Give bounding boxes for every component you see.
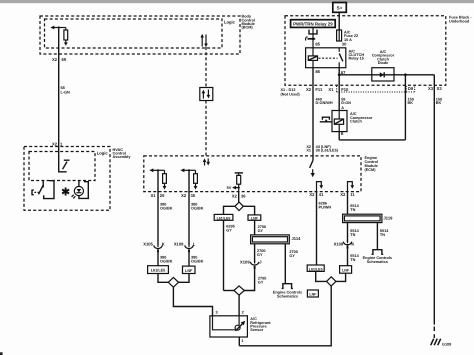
svg-text:PU/WH: PU/WH xyxy=(319,205,332,209)
wire X2 36 to splice xyxy=(238,192,240,203)
wire 87 to diode and ground xyxy=(339,74,434,76)
svg-text:TN: TN xyxy=(380,233,385,237)
svg-text:Assembly: Assembly xyxy=(113,155,132,159)
svg-text:L61/LE5: L61/LE5 xyxy=(309,267,323,271)
svg-text:(ECM): (ECM) xyxy=(365,168,377,172)
connector X109 K xyxy=(343,241,352,249)
HVAC logic box xyxy=(29,152,95,181)
ECM driver (X2 35) xyxy=(183,169,196,171)
svg-text:J119: J119 xyxy=(384,216,394,221)
svg-text:X2: X2 xyxy=(232,193,238,198)
svg-text:L61/LE5: L61/LE5 xyxy=(217,216,231,220)
sensor internals xyxy=(213,316,236,330)
wire 150 BK (D9 to clutch B) xyxy=(404,75,406,140)
svg-text:GY: GY xyxy=(226,229,232,233)
svg-text:68: 68 xyxy=(61,86,65,90)
svg-text:25: 25 xyxy=(160,193,165,198)
junction block J119 xyxy=(343,214,382,222)
svg-text:69: 69 xyxy=(62,57,67,62)
svg-text:2: 2 xyxy=(242,311,244,315)
relay switch xyxy=(338,48,340,52)
wire 2700 GY to J114 xyxy=(254,220,256,235)
ground G109 xyxy=(431,339,441,346)
serial data connector box xyxy=(200,88,213,101)
svg-text:(BCM): (BCM) xyxy=(242,26,254,30)
svg-text:D9: D9 xyxy=(408,86,414,91)
svg-text:X2: X2 xyxy=(309,192,315,197)
svg-text:30 (L61/LE5): 30 (L61/LE5) xyxy=(316,149,339,153)
ECM box xyxy=(144,156,361,192)
svg-text:X2: X2 xyxy=(52,141,58,146)
svg-text:11: 11 xyxy=(350,192,355,197)
svg-text:OG/BK: OG/BK xyxy=(191,260,204,264)
svg-text:TN: TN xyxy=(350,208,355,212)
svg-text:J: J xyxy=(259,260,261,265)
connector X109 J xyxy=(250,261,259,269)
junction block J114 xyxy=(251,235,290,244)
svg-text:S+: S+ xyxy=(337,6,343,11)
wire splice to sensor pin 1 xyxy=(239,286,331,346)
svg-text:BK: BK xyxy=(408,101,414,105)
svg-text:LNF: LNF xyxy=(185,269,193,273)
dotted link F10 to D9 xyxy=(336,86,338,92)
wire relay29 to 85 xyxy=(312,27,314,47)
svg-text:GY: GY xyxy=(289,254,295,258)
BCM driver U? arrow xyxy=(53,27,66,29)
svg-text:36: 36 xyxy=(241,193,246,198)
svg-text:87: 87 xyxy=(341,70,346,75)
wire to LNF branch xyxy=(243,206,254,215)
wire S+ to fuse xyxy=(338,12,340,30)
svg-text:K: K xyxy=(351,242,354,247)
svg-text:K: K xyxy=(162,242,165,247)
A/C Compressor Clutch box xyxy=(332,111,347,132)
splice diamond (X2 36) xyxy=(235,202,243,210)
svg-text:5V: 5V xyxy=(227,186,232,190)
top scan bar xyxy=(0,0,474,3)
wire 2700 GY J114 right branch xyxy=(284,244,286,284)
wire 380 OG/BK (X1 25) xyxy=(157,170,159,245)
tag L61/LE5 xyxy=(214,214,233,220)
ECM output hook (X2 11) xyxy=(348,182,353,192)
serial data wire (dashed) xyxy=(205,47,207,88)
svg-text:L61/LE5: L61/LE5 xyxy=(151,269,166,273)
node S+ xyxy=(333,3,347,13)
svg-text:F11: F11 xyxy=(315,87,323,92)
svg-text:X105: X105 xyxy=(143,242,153,247)
ECM 5V reference xyxy=(235,172,243,174)
wire clutch B to 150 BK xyxy=(338,132,340,140)
BCM outer box xyxy=(40,16,240,54)
svg-text:X2: X2 xyxy=(340,192,346,197)
node PWR/TRN Relay 29 xyxy=(291,20,336,28)
splice diamond (sensor 5V) xyxy=(234,286,244,295)
svg-text:GY: GY xyxy=(258,281,264,285)
ECM clutch relay driver xyxy=(310,160,313,168)
svg-text:35: 35 xyxy=(191,193,196,198)
HVAC outer box xyxy=(24,147,110,211)
svg-text:Diode: Diode xyxy=(378,61,389,65)
wire 6514 TN to LNF xyxy=(347,249,349,266)
connector X105 K xyxy=(154,244,163,252)
svg-text:X3: X3 xyxy=(428,86,434,91)
svg-text:G109: G109 xyxy=(442,342,451,346)
off-page ref (J119) xyxy=(372,250,384,255)
svg-text:41: 41 xyxy=(319,192,324,197)
svg-text:85: 85 xyxy=(315,41,320,46)
svg-text:X109: X109 xyxy=(334,242,344,247)
svg-text:TN: TN xyxy=(350,258,355,262)
tag LNF xyxy=(183,266,196,273)
relay A/C CLUTCH Relay 15 box xyxy=(306,48,346,68)
wire splice to sensor pin 2 xyxy=(238,295,240,316)
svg-text:L-GN: L-GN xyxy=(61,91,71,95)
svg-text:X3: X3 xyxy=(437,86,443,91)
svg-text:Logic: Logic xyxy=(224,19,236,24)
HVAC A/C switch xyxy=(59,147,67,172)
wire 68 L-GN BCM to HVAC xyxy=(58,28,60,147)
svg-text:Schematics: Schematics xyxy=(367,260,388,264)
wire 380 OG/BK below X105 xyxy=(157,253,159,266)
svg-text:OG/BK: OG/BK xyxy=(160,260,173,264)
svg-text:X1: X1 xyxy=(151,193,157,198)
svg-text:OG/BK: OG/BK xyxy=(160,207,173,211)
svg-text:A: A xyxy=(341,106,344,110)
svg-text:X1: X1 xyxy=(306,149,311,153)
wire 87 down xyxy=(338,68,340,86)
tag LNF xyxy=(307,290,318,297)
BCM driver resistor xyxy=(64,30,68,40)
tag L61/LE5 xyxy=(307,265,324,271)
wire 86 to F11 xyxy=(312,68,314,86)
svg-text:86: 86 xyxy=(315,69,320,74)
wire 2700 GY J114 to X109 J xyxy=(254,244,256,263)
svg-text:LNF: LNF xyxy=(309,292,317,296)
clutch coil xyxy=(334,119,343,124)
svg-text:BK: BK xyxy=(436,101,442,105)
wire 380 OG/BK (X2 35) xyxy=(188,170,190,245)
wire 6295 GY xyxy=(223,220,225,290)
wires into splice xyxy=(158,274,168,283)
svg-text:LNF: LNF xyxy=(342,268,350,272)
wire splice to sensor pin 3 xyxy=(173,287,212,316)
ECM serial data arrows xyxy=(204,161,206,166)
splice diamond (380) xyxy=(168,277,178,287)
svg-text:X2: X2 xyxy=(52,57,58,62)
clutch mechanical link xyxy=(320,121,332,123)
svg-text:X109: X109 xyxy=(240,260,250,265)
splice diamond (sensor low ref) xyxy=(327,277,336,286)
ECM output hook (X2 41) xyxy=(317,182,322,192)
BCM logic box xyxy=(45,19,223,48)
fuse F22 A/C Fuse 22 10A xyxy=(337,30,342,41)
relay link dashed xyxy=(319,57,338,59)
svg-text:PWR/TRN Relay 29: PWR/TRN Relay 29 xyxy=(293,22,333,27)
svg-text:X109: X109 xyxy=(174,242,184,247)
svg-text:X1: X1 xyxy=(328,87,334,92)
wire 469 D-GN/WH (F11 to ECM) xyxy=(312,85,314,160)
wire 6514 TN J119 to X109 K xyxy=(347,223,349,242)
HVAC pushbutton switch xyxy=(32,190,34,195)
wire 5514 TN J119 right branch xyxy=(376,223,378,250)
svg-text:Relay 15: Relay 15 xyxy=(349,57,364,61)
svg-text:Sensor: Sensor xyxy=(250,328,263,332)
off-page ref (J114) xyxy=(282,284,293,289)
fuse block internal connector xyxy=(309,30,317,34)
BCM serial data arrows xyxy=(201,37,203,47)
svg-text:D-GN/WH: D-GN/WH xyxy=(316,101,333,105)
svg-text:30: 30 xyxy=(342,41,347,46)
A/C Refrigerant Pressure Sensor box xyxy=(210,316,248,337)
wire 150 BK to ground xyxy=(433,75,435,325)
wire 59 D-GN (F10 to clutch A) xyxy=(338,85,340,110)
wire sensor pin 1 xyxy=(238,337,240,346)
A/C indicator LED xyxy=(78,181,80,187)
svg-text:3: 3 xyxy=(216,311,218,315)
wire 380 OG/BK below X109 xyxy=(188,253,190,266)
svg-text:Logic: Logic xyxy=(97,150,109,155)
ECM driver (X1 25) xyxy=(152,169,165,171)
svg-text:D-GN: D-GN xyxy=(341,101,351,105)
wire 6514 TN (X2 11) xyxy=(347,192,349,215)
svg-text:Underhood: Underhood xyxy=(449,19,470,23)
svg-text:(Not Used): (Not Used) xyxy=(281,92,301,96)
svg-text:X2: X2 xyxy=(306,87,312,92)
wire 6286 PU/WH (X2 41) xyxy=(316,192,318,265)
snowflake icon xyxy=(62,188,69,196)
svg-text:Clutch: Clutch xyxy=(350,120,362,124)
wires into splice xyxy=(316,271,327,281)
wire to L61/LE5 branch xyxy=(224,206,235,214)
wire 6295 into splice xyxy=(224,290,234,292)
svg-text:J114: J114 xyxy=(292,236,302,241)
diode A/C Compressor Clutch Diode xyxy=(372,68,394,81)
svg-text:LNF: LNF xyxy=(251,216,259,220)
relay coil xyxy=(308,56,317,61)
svg-text:X2: X2 xyxy=(181,193,187,198)
svg-text:GY: GY xyxy=(258,229,264,233)
tag LNF xyxy=(340,266,352,274)
svg-text:OG/BK: OG/BK xyxy=(191,207,204,211)
tag LNF xyxy=(248,215,261,220)
connector X109 L xyxy=(185,244,194,252)
Fuse Block - Underhood box xyxy=(285,16,446,86)
svg-text:GY: GY xyxy=(257,253,263,257)
svg-text:1: 1 xyxy=(241,339,243,343)
svg-text:TN: TN xyxy=(350,233,355,237)
wire 2700 GY to splice xyxy=(244,269,254,290)
svg-text:B: B xyxy=(341,132,344,136)
tag L61/LE5 xyxy=(148,266,169,274)
svg-text:Schematics: Schematics xyxy=(277,294,298,298)
